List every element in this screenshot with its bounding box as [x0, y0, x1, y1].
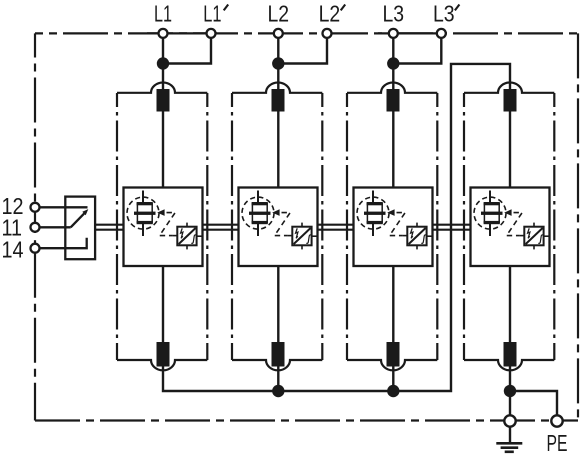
svg-text:L1: L1: [203, 0, 221, 26]
svg-text:L1: L1: [154, 0, 172, 26]
svg-text:L2: L2: [268, 0, 290, 26]
svg-text:L3: L3: [383, 0, 405, 26]
svg-text:L3: L3: [433, 0, 455, 26]
svg-text:PE: PE: [547, 430, 568, 456]
svg-text:L2: L2: [319, 0, 341, 26]
svg-text:14: 14: [2, 236, 24, 262]
